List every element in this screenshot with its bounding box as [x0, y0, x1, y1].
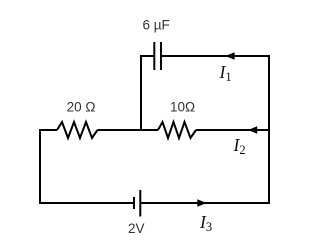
- svg-text:20 Ω: 20 Ω: [67, 99, 96, 114]
- wire: middle-left corner to resistor R1: [40, 129, 57, 130]
- wire: top wire from capacitor right plate to top-right corner: [161, 55, 269, 57]
- svg-text:2V: 2V: [128, 221, 145, 236]
- resistor R1 20 Ω (zigzag): [57, 122, 98, 138]
- wire: between R1 and R2 through junction node: [98, 129, 159, 131]
- wire: bottom-left to battery: [39, 202, 134, 204]
- battery V1 (short negative plate): [133, 197, 135, 209]
- resistor R2 10Ω (zigzag): [158, 122, 196, 138]
- battery V1 (tall positive plate): [139, 190, 141, 217]
- wire: right vertical side: [268, 55, 270, 204]
- arrow for current I2 (pointing left): [248, 126, 257, 134]
- wire: R2 to right side: [196, 129, 269, 131]
- svg-text:10Ω: 10Ω: [170, 99, 195, 114]
- wire: capacitor branch (node junction at x=141 down to middle wire): [141, 56, 154, 130]
- svg-text:6 µF: 6 µF: [143, 17, 170, 32]
- arrow for current I1 (pointing left): [225, 52, 234, 60]
- wire: battery to bottom-right corner: [140, 202, 269, 204]
- arrow for current I3 (pointing right): [197, 199, 206, 207]
- capacitor C1: [154, 42, 161, 70]
- wire: left vertical side: [39, 129, 41, 204]
